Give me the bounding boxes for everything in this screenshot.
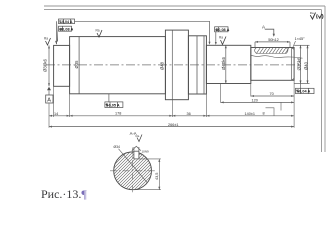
svg-text:Ø30k6: Ø30k6: [43, 59, 48, 72]
sheet frame top inner line: [44, 9, 322, 11]
roughness mark on S1: [46, 38, 51, 45]
right depth dim 43.5: [133, 159, 161, 190]
svg-text:Ra: Ra: [44, 37, 48, 41]
svg-text:⊛0,08 A: ⊛0,08 A: [215, 28, 229, 32]
keyway length dim 50h12: [255, 42, 290, 48]
dia dim S1 with datum A: [48, 45, 50, 86]
overall dim row: [49, 126, 294, 128]
svg-text:50h12: 50h12: [268, 38, 279, 42]
GDT box2: [59, 26, 72, 31]
svg-text:120: 120: [252, 99, 258, 103]
keyway width dim arrows (roof): [132, 146, 141, 151]
dim row1 multi: [49, 115, 294, 117]
roughness mark on S2: [97, 30, 102, 37]
GDT leader left vertical: [56, 21, 58, 44]
step lines in S4: [196, 36, 198, 94]
dim row 70: [251, 95, 294, 97]
chamfer right end: [292, 48, 295, 50]
svg-text:Ra: Ra: [310, 11, 314, 15]
GDT box4 bottom right: [300, 84, 302, 89]
section S1 left journal: [54, 45, 70, 86]
svg-text:Ø35k6: Ø35k6: [297, 57, 302, 70]
svg-text:⇅0,04 A: ⇅0,04 A: [59, 19, 73, 24]
GDT box3 leader: [215, 32, 217, 44]
step line in S2: [78, 37, 80, 94]
sheet frame right outer line: [324, 6, 326, 152]
roughness mark on S5: [221, 37, 227, 45]
svg-text:Ra: Ra: [96, 29, 100, 33]
right end dia dims: [294, 45, 309, 83]
svg-text:10N9: 10N9: [142, 149, 150, 153]
general roughness symbol top-right: [310, 13, 323, 20]
section A-A circle: [114, 152, 152, 190]
svg-text:8: 8: [263, 112, 265, 116]
section S5 right journal: [206, 45, 250, 83]
svg-text:⊛0,08 A: ⊛0,08 A: [59, 27, 73, 31]
GDT box below S2: [108, 94, 110, 102]
A-A hatch: [78, 145, 209, 195]
svg-text:140±1: 140±1: [245, 112, 256, 116]
svg-text:Ø35: Ø35: [74, 60, 79, 69]
svg-text:14: 14: [54, 112, 58, 116]
dim row 120: [221, 101, 294, 103]
sheet frame right inner line: [321, 10, 323, 152]
svg-text:Ø34: Ø34: [114, 145, 121, 149]
section S6 keyway end: [251, 48, 294, 81]
flange S3: [165, 30, 188, 100]
centerline main shaft: [46, 64, 302, 66]
svg-text:43,5: 43,5: [155, 173, 159, 180]
svg-text:70: 70: [270, 92, 274, 96]
svg-text:A: A: [47, 98, 51, 104]
bottom dimension extension lines: [49, 45, 294, 128]
keyway break wavy line: [251, 55, 303, 58]
svg-text:Ø40: Ø40: [304, 61, 309, 70]
A-A centerlines: [110, 148, 156, 194]
GDT leader from box1 to right journal: [75, 21, 210, 43]
datum A triangle and box: [47, 87, 51, 90]
svg-text:A: A: [262, 25, 265, 30]
svg-text:Ø40k6: Ø40k6: [221, 57, 226, 70]
A-A keyway notch: [134, 151, 139, 159]
leader bracket for 8: [266, 108, 275, 116]
svg-text:Ø48: Ø48: [160, 61, 165, 70]
section S4: [188, 36, 206, 94]
svg-text:⇅0,05 A: ⇅0,05 A: [105, 103, 119, 108]
svg-text:178: 178: [115, 112, 121, 116]
section S2 main body: [70, 37, 166, 94]
svg-text:266±1: 266±1: [168, 123, 179, 127]
sheet frame top outer line: [44, 5, 325, 7]
svg-text:36: 36: [187, 112, 191, 116]
svg-text:⇅0,04 A: ⇅0,04 A: [296, 89, 310, 94]
dia dim S5 mid: [225, 45, 227, 83]
GDT box3 above right journal: [215, 27, 228, 32]
svg-text:1×45°: 1×45°: [295, 37, 306, 41]
svg-text:Ra: Ra: [136, 134, 140, 138]
GDT box1: [59, 19, 75, 24]
keyway partial section hatch: [255, 48, 289, 54]
svg-text:Ra: Ra: [219, 36, 223, 40]
caption: [41, 187, 87, 202]
